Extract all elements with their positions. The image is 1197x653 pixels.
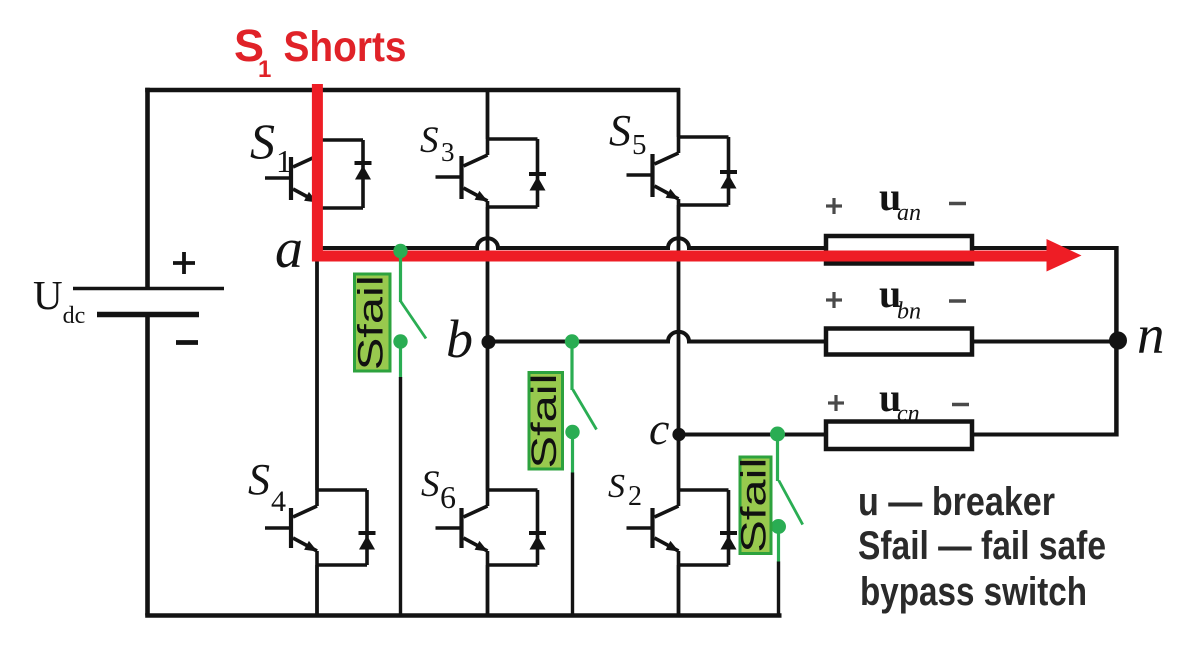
wire phase c line <box>679 433 1117 437</box>
transistor S4 with diode <box>265 490 376 565</box>
wire leg3 S5 emitter to node c and S2 <box>677 205 681 490</box>
Sfail a bypass switch <box>401 251 427 378</box>
wire phase a line with hops over legs <box>317 238 1116 248</box>
wire leg2 S6 emitter to bottom rail <box>486 565 490 616</box>
wire left DC bus lower <box>145 317 150 616</box>
svg-text:Sfail: Sfail <box>525 374 564 469</box>
Sfail a label box <box>355 274 391 371</box>
svg-text:n: n <box>1137 304 1165 365</box>
svg-text:5: 5 <box>632 129 647 161</box>
red fault current arrowhead <box>1047 239 1082 272</box>
Sfail c contact dots <box>770 427 785 442</box>
wire right bus to node n <box>1114 246 1119 437</box>
svg-text:Sfail — fail safe: Sfail — fail safe <box>858 524 1106 568</box>
battery Udc positive plate <box>73 287 224 291</box>
wire leg3 upper (S5 collector to top rail) <box>677 88 681 137</box>
breaker u_cn <box>826 422 972 450</box>
red fault current path S1 shorts <box>317 84 1047 256</box>
Sfail c label box <box>740 457 771 554</box>
svg-text:2: 2 <box>628 481 642 512</box>
wire leg2 S3 emitter to node b and S6 <box>486 207 490 490</box>
wire leg3 S2 emitter to bottom rail <box>677 565 681 616</box>
transistor S6 with diode <box>436 490 547 565</box>
transistor S3 with diode <box>436 139 547 207</box>
wire bottom rail <box>145 613 781 618</box>
label + u_an - <box>826 198 966 214</box>
svg-text:an: an <box>897 200 921 226</box>
Sfail b contact dots <box>565 334 579 348</box>
svg-text:bn: bn <box>897 299 921 325</box>
svg-text:1: 1 <box>276 143 292 179</box>
node n junction dot <box>1109 332 1127 350</box>
label + u_cn - <box>828 395 969 411</box>
transistor S2 with diode <box>627 490 738 565</box>
Sfail a contact dots <box>393 244 407 258</box>
label + u_bn - <box>826 292 966 308</box>
breaker u_an <box>826 236 972 264</box>
svg-text:b: b <box>446 309 473 369</box>
node b junction dot <box>482 335 496 349</box>
Sfail b label box <box>529 373 563 470</box>
label - battery <box>176 340 198 345</box>
svg-text:S: S <box>420 120 439 161</box>
svg-text:4: 4 <box>271 485 286 518</box>
node c junction dot <box>672 428 685 441</box>
wire left DC bus upper <box>145 88 150 287</box>
svg-text:cn: cn <box>897 401 920 427</box>
wire leg2 upper (S3 collector to top rail) <box>486 88 490 139</box>
svg-text:S: S <box>608 468 625 505</box>
svg-text:Udc: Udc <box>33 272 85 329</box>
wire leg1 upper (S1 collector to top rail) <box>315 88 319 140</box>
svg-text:S: S <box>248 455 270 504</box>
svg-text:3: 3 <box>441 137 455 167</box>
transistor S5 with diode <box>627 137 738 205</box>
wire phase b line with hop over leg3 <box>488 332 1117 342</box>
wire a bypass to bottom rail <box>399 377 402 616</box>
svg-text:a: a <box>275 218 303 280</box>
label + battery <box>173 252 195 274</box>
svg-text:u — breaker: u — breaker <box>858 480 1055 524</box>
svg-text:Sfail: Sfail <box>352 275 391 370</box>
svg-text:S: S <box>250 113 275 169</box>
transistor S1 with diode <box>265 140 372 208</box>
svg-text:6: 6 <box>440 479 456 515</box>
svg-text:S: S <box>421 464 440 505</box>
wire leg1 S1 emitter to node a <box>315 208 319 250</box>
svg-text:S: S <box>609 106 631 155</box>
svg-text:bypass switch: bypass switch <box>860 570 1087 614</box>
svg-text:Sfail: Sfail <box>735 458 774 553</box>
wire b bypass to bottom rail <box>571 473 574 616</box>
battery Udc negative plate <box>97 312 199 318</box>
wire top rail <box>145 88 680 93</box>
wire leg1 S4 emitter to bottom rail <box>315 565 319 616</box>
svg-text:Shorts: Shorts <box>284 23 407 71</box>
Sfail c bypass switch <box>778 434 803 562</box>
wire c bypass to bottom rail <box>777 562 780 616</box>
svg-text:c: c <box>649 403 669 454</box>
wire leg1 node a to S4 <box>315 248 319 490</box>
breaker u_bn <box>826 329 972 355</box>
svg-text:1: 1 <box>258 56 271 83</box>
Sfail b bypass switch <box>572 342 597 474</box>
